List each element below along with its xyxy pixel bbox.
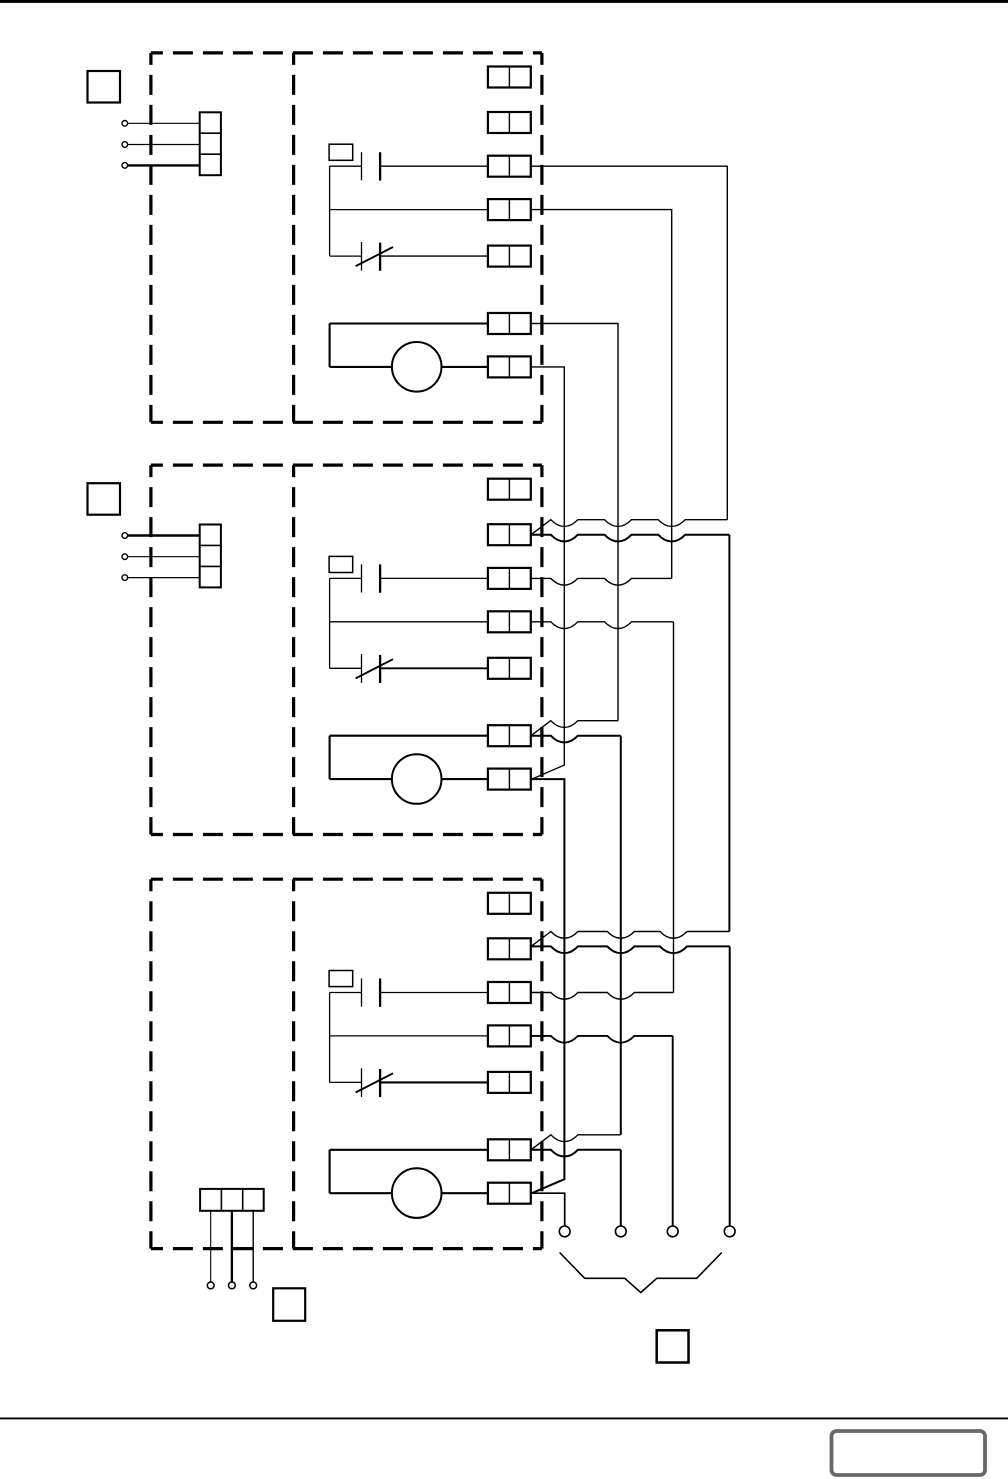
module 1 dashed divider xyxy=(292,53,295,422)
module 1 contact label box xyxy=(329,144,353,160)
module 3 dashed enclosure bottom edge xyxy=(151,1247,542,1250)
designator square for terminal group xyxy=(657,1330,689,1362)
page top rule xyxy=(0,0,1008,3)
module 1 terminal block 3 divider xyxy=(508,156,510,177)
module 2 connector X2 cell divider 2 xyxy=(200,565,221,567)
terminal pin L3 xyxy=(667,1226,678,1237)
module 3 terminal block 4 xyxy=(488,1025,531,1046)
module 3 output pin 1 xyxy=(207,1282,214,1289)
module 2 connector X2 cell divider 1 xyxy=(200,544,221,546)
wire module 2 rung 3 right xyxy=(380,667,488,669)
module 2 NC contact right bar xyxy=(379,655,381,683)
module 2 dashed enclosure top edge xyxy=(151,464,542,467)
module 1 dashed enclosure left edge xyxy=(149,53,152,422)
module 2 terminal block 1 xyxy=(488,479,531,500)
module 3 terminal block 2 xyxy=(488,938,531,959)
brace under terminal pins xyxy=(560,1253,722,1293)
motor M2 xyxy=(392,754,442,804)
wire net L2 hop row into module2 block3 xyxy=(531,578,672,585)
module 1 NO contact right bar xyxy=(379,152,381,180)
wire net L1 hop row into module3 block2 xyxy=(531,932,729,947)
module 1 terminal block 6 divider xyxy=(508,313,510,334)
wire module 3 motor feed xyxy=(330,1192,392,1194)
wire module 2 motor loop top xyxy=(330,735,488,737)
wire module 3 rung 2 xyxy=(330,1035,488,1037)
module 3 dashed enclosure top edge xyxy=(151,878,542,881)
wire module 1 input 2 xyxy=(128,144,200,146)
module 2 terminal block 7 divider xyxy=(508,769,510,790)
wire module 1 rung 2 xyxy=(330,209,488,211)
module 2 terminal block 5 xyxy=(488,658,531,679)
wire net L1 module2 block2 out xyxy=(531,535,729,542)
module 1 input pin 3 xyxy=(122,163,128,169)
module 3 terminal block 5 divider xyxy=(508,1072,510,1093)
module 1 terminal block 6 xyxy=(488,313,531,334)
motor M1 xyxy=(392,342,442,392)
module 1 NC contact right bar xyxy=(379,243,381,271)
wire module 1 motor to block 7 xyxy=(442,366,488,368)
wire module 2 motor loop left xyxy=(329,736,331,779)
wire net L2 hop row into module3 block3 xyxy=(531,993,674,1000)
module 2 contact label box xyxy=(329,556,353,572)
module 2 NO contact left bar xyxy=(361,564,363,592)
module 1 terminal block 1 divider xyxy=(508,67,510,88)
footer rule xyxy=(0,1417,1008,1419)
module 2 input pin 2 xyxy=(122,554,128,560)
wire net M1 hop row into module3 block6 xyxy=(531,1135,621,1150)
terminal pin L4 xyxy=(724,1226,735,1237)
module 3 terminal block 1 xyxy=(488,893,531,914)
motor M3 xyxy=(392,1168,442,1218)
wire net M1 module3 block6 out xyxy=(531,1150,621,1157)
wire module 3 motor to block 7 xyxy=(442,1192,488,1194)
module 3 NO contact right bar xyxy=(379,979,381,1007)
wire net L2 down to module3 xyxy=(673,622,675,993)
module 1 terminal block 7 xyxy=(488,356,531,377)
module 3 terminal block 2 divider xyxy=(508,938,510,959)
module 3 terminal block 5 xyxy=(488,1072,531,1093)
wire net L1 hop row into module2 block2 xyxy=(531,520,727,535)
wire module 2 rung 2 xyxy=(330,621,488,623)
module 1 input pin 1 xyxy=(122,121,128,127)
wire module 2 rung 3 left xyxy=(330,667,362,669)
wire module 3 left rail xyxy=(329,993,331,1083)
wire net L1 module3 block2 out xyxy=(531,946,730,953)
wire net M1 module2 block6 out xyxy=(531,736,621,743)
module 3 terminal block 4 divider xyxy=(508,1025,510,1046)
wire module 3 output 3 xyxy=(252,1211,254,1282)
wire net M2 module1 block7 to corner xyxy=(531,367,565,779)
module 1 terminal block 1 xyxy=(488,67,531,88)
terminal pin L2 xyxy=(615,1226,626,1237)
module 2 terminal block 7 xyxy=(488,769,531,790)
module 1 dashed enclosure right edge xyxy=(540,53,543,422)
module 1 designator square xyxy=(88,71,121,103)
module 2 dashed enclosure bottom edge xyxy=(151,833,542,836)
module 2 NC contact slash xyxy=(356,659,393,678)
wire module 1 motor feed xyxy=(330,366,392,368)
module 3 NO contact left bar xyxy=(361,979,363,1007)
module 3 terminal block 6 xyxy=(488,1139,531,1160)
module 3 terminal block 7 divider xyxy=(508,1183,510,1204)
module 2 terminal block 4 xyxy=(488,611,531,632)
wire module 1 motor loop left xyxy=(329,324,331,367)
wire module 2 motor to block 7 xyxy=(442,778,488,780)
module 1 terminal block 5 divider xyxy=(508,246,510,267)
module 3 output pin 2 xyxy=(229,1282,236,1289)
module 2 terminal block 3 xyxy=(488,568,531,589)
wire net M2 module2 block7 out xyxy=(532,779,565,1193)
footer reference box xyxy=(832,1431,986,1475)
wire net L2 down to pin xyxy=(672,1036,674,1226)
module 1 terminal block 3 xyxy=(488,156,531,177)
module 2 dashed enclosure right edge xyxy=(540,465,543,834)
module 3 dashed divider xyxy=(292,879,295,1248)
module 2 terminal block 6 xyxy=(488,725,531,746)
module 2 terminal block 1 divider xyxy=(508,479,510,500)
module 1 terminal block 5 xyxy=(488,246,531,267)
wire net M2 module3 block7 out xyxy=(532,1193,565,1226)
wire net M1 down to pin xyxy=(620,1150,622,1226)
wire module 3 output 2 xyxy=(231,1211,233,1282)
wire net M1 down to module3 xyxy=(620,736,622,1135)
wire net M1 module1 block6 to corner xyxy=(531,324,618,721)
module 2 dashed enclosure left edge xyxy=(149,465,152,834)
module 1 connector X1 body xyxy=(200,112,221,175)
wire module 2 motor feed xyxy=(330,778,392,780)
module 3 terminal block 1 divider xyxy=(508,893,510,914)
wire module 1 rung 3 right xyxy=(380,255,488,257)
wire module 3 motor loop left xyxy=(329,1150,331,1193)
module 1 connector X1 cell divider 1 xyxy=(200,132,221,134)
wire module 1 input 3 xyxy=(128,164,200,166)
module 2 designator square xyxy=(88,483,121,515)
wire module 3 output 1 xyxy=(210,1211,212,1282)
wire module 1 rung 1 left xyxy=(330,165,362,167)
module 1 terminal block 4 xyxy=(488,199,531,220)
module 3 terminal block 6 divider xyxy=(508,1139,510,1160)
wire module 2 input 2 xyxy=(128,556,200,558)
module 2 terminal block 5 divider xyxy=(508,658,510,679)
wire net L1 down to module3 xyxy=(728,535,730,932)
module 1 input pin 2 xyxy=(122,142,128,148)
module 1 terminal block 7 divider xyxy=(508,356,510,377)
module 2 terminal block 2 xyxy=(488,524,531,545)
module 3 terminal block 3 divider xyxy=(508,982,510,1003)
wire module 3 rung 3 left xyxy=(330,1081,362,1083)
wire net L1 down to pin xyxy=(729,946,731,1226)
wire module 1 left rail xyxy=(329,166,331,256)
module 3 NC contact slash xyxy=(356,1073,393,1092)
wire module 2 rung 1 right xyxy=(380,577,488,579)
module 1 terminal block 4 divider xyxy=(508,199,510,220)
wire module 1 input 1 xyxy=(128,122,200,124)
module 1 dashed enclosure top edge xyxy=(151,51,542,54)
wire module 1 motor loop top xyxy=(330,322,488,324)
wire module 2 input 1 xyxy=(128,534,200,536)
module 1 terminal block 2 divider xyxy=(508,112,510,133)
module 3 terminal block 7 xyxy=(488,1183,531,1204)
wire module 1 rung 1 right xyxy=(380,165,488,167)
wire net M1 hop row into module2 block6 xyxy=(531,721,618,736)
module 1 NC contact slash xyxy=(356,247,393,266)
wire module 3 rung 1 right xyxy=(380,992,488,994)
module 3 NC contact right bar xyxy=(379,1069,381,1097)
module 2 input pin 1 xyxy=(122,533,128,539)
wire module 3 rung 3 right xyxy=(380,1081,488,1083)
wire module 3 motor loop top xyxy=(330,1149,488,1151)
module 2 terminal block 6 divider xyxy=(508,725,510,746)
module 1 NO contact left bar xyxy=(361,152,363,180)
module 3 NC contact left bar xyxy=(361,1068,363,1097)
designator square below module 3 connector xyxy=(273,1288,305,1321)
wire net L2 module3 block4 out xyxy=(531,1036,673,1043)
module 3 dashed enclosure right edge xyxy=(540,879,543,1248)
wire module 3 rung 1 left xyxy=(330,992,362,994)
module 1 terminal block 2 xyxy=(488,112,531,133)
module 3 output pin 3 xyxy=(250,1282,257,1289)
module 3 dashed enclosure left edge xyxy=(149,879,152,1248)
terminal pin L1 xyxy=(559,1226,570,1237)
module 1 connector X1 cell divider 2 xyxy=(200,153,221,155)
module 2 terminal block 4 divider xyxy=(508,611,510,632)
module 3 contact label box xyxy=(329,971,353,987)
wire net L2 module1 block4 to corner xyxy=(531,210,672,579)
module 3 connector X3 cell divider 1 xyxy=(220,1189,222,1211)
module 2 connector X2 body xyxy=(200,525,221,588)
module 1 NC contact left bar xyxy=(361,242,363,271)
module 3 connector X3 body xyxy=(200,1189,264,1211)
wire module 2 left rail xyxy=(329,578,331,668)
module 3 connector X3 cell divider 2 xyxy=(242,1189,244,1211)
wire module 1 rung 3 left xyxy=(330,255,362,257)
module 2 terminal block 3 divider xyxy=(508,568,510,589)
module 1 dashed enclosure bottom edge xyxy=(151,421,542,424)
wire net L2 module2 block4 out xyxy=(531,622,674,629)
module 3 terminal block 3 xyxy=(488,982,531,1003)
wire module 2 rung 1 left xyxy=(330,577,362,579)
module 2 NC contact left bar xyxy=(361,654,363,683)
wire net L1 module1 block3 to corner xyxy=(531,166,728,520)
module 2 terminal block 2 divider xyxy=(508,524,510,545)
wire module 2 input 3 xyxy=(128,577,200,579)
module 2 dashed divider xyxy=(292,465,295,834)
module 2 input pin 3 xyxy=(122,575,128,581)
module 2 NO contact right bar xyxy=(379,564,381,592)
